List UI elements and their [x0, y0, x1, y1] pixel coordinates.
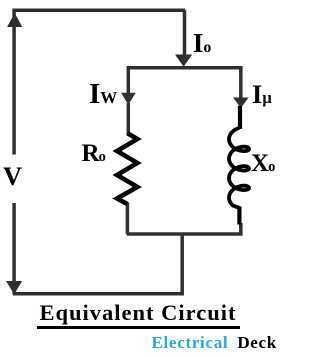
wire: inner top horizontal — [127, 66, 243, 70]
wire: right branch black segment below coil — [237, 207, 241, 225]
wire: inner bottom horizontal — [127, 232, 243, 236]
wire: right branch top segment — [239, 68, 243, 99]
wire: left branch top segment — [127, 68, 131, 93]
wire: feed vertical from top to inner top node — [183, 10, 187, 55]
title: Equivalent Circuit — [40, 302, 237, 325]
label Ro — [82, 141, 106, 166]
arrowhead down Io on feed vertical — [175, 55, 192, 67]
wire: outer left vertical upper segment — [12, 10, 16, 154]
label Io — [193, 29, 212, 57]
arrowhead down on outer left wire bottom — [6, 281, 22, 294]
wire: right branch bottom gray segment — [239, 223, 243, 234]
watermark: Electrical Deck — [152, 334, 277, 351]
inductor Xo coil — [229, 128, 249, 208]
label Xo — [251, 151, 275, 176]
arrowhead down Iw on left branch — [121, 93, 136, 105]
arrowhead up on outer left wire (V direction) — [7, 13, 22, 27]
wire: outer bottom horizontal — [13, 292, 184, 296]
label Iw — [89, 80, 117, 109]
label V — [3, 163, 22, 190]
label Imu — [252, 81, 272, 108]
arrowhead down Imu on right branch — [233, 98, 249, 109]
wire: left branch bottom segment — [126, 203, 130, 235]
wire: right branch black segment above coil — [238, 106, 242, 129]
wire: outer top horizontal — [12, 8, 185, 12]
title underline — [37, 326, 241, 329]
resistor Ro zigzag — [117, 133, 137, 204]
wire: middle return vertical — [180, 234, 184, 294]
wire: left branch segment below arrow — [127, 103, 131, 135]
wire: outer left vertical lower segment — [12, 203, 16, 294]
